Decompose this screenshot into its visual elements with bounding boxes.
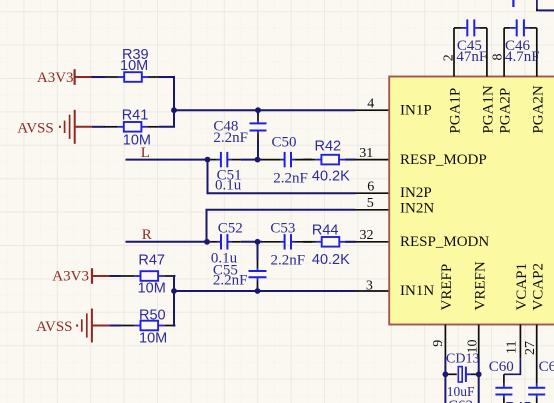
power port AVSS (top) [17, 110, 92, 144]
resistor R50 10M [121, 308, 175, 347]
svg-text:3: 3 [366, 278, 373, 293]
capacitor C46 4.7nF [504, 19, 539, 65]
svg-text:IN2P: IN2P [400, 185, 432, 201]
svg-text:4: 4 [367, 97, 374, 112]
svg-text:PGA2P: PGA2P [498, 88, 514, 134]
capacitor C60 [489, 359, 521, 403]
pin 11 VCAP1 [505, 263, 530, 359]
wire R44 to pin 32 [346, 241, 356, 243]
pin 8 PGA2P [491, 28, 514, 134]
pin name IN2P [400, 185, 432, 201]
wire AVSS to R50 [109, 325, 121, 327]
wire top-right corner (net from above) [537, 0, 554, 10]
capacitor C50 2.2nF [262, 135, 312, 187]
svg-text:2.2nF: 2.2nF [213, 273, 248, 289]
svg-text:IN1N: IN1N [400, 283, 434, 299]
svg-text:2.2nF: 2.2nF [213, 130, 248, 146]
svg-text:C52: C52 [218, 221, 243, 237]
wire R42 to pin 31 [345, 159, 355, 161]
svg-text:RESP_MODN: RESP_MODN [400, 234, 489, 250]
power port A3V3 (bottom) [52, 268, 109, 284]
svg-text:0.1u: 0.1u [215, 178, 242, 194]
svg-text:R47: R47 [138, 252, 165, 268]
wire C53 to R44 [304, 241, 312, 243]
svg-text:R42: R42 [315, 138, 342, 154]
wire A3V3 to R47 [110, 275, 122, 277]
svg-text:PGA1P: PGA1P [448, 88, 464, 134]
svg-text:R41: R41 [122, 107, 149, 123]
resistor R39 10M [105, 47, 159, 82]
wire IN2N to R junction [207, 210, 356, 242]
wire AVSS to R41 [92, 126, 105, 128]
pin 4 IN1P [356, 97, 390, 112]
capacitor CD13 10uF (polarized) [445, 367, 478, 382]
resistor R44 40.2K [303, 223, 357, 268]
resistor R42 40.2K [302, 138, 356, 184]
pin name RESP_MODN [400, 234, 489, 250]
capacitor C55 2.2nF [213, 242, 267, 291]
svg-text:IN2N: IN2N [400, 201, 434, 217]
svg-text:10uF: 10uF [447, 384, 475, 399]
node L input wire [126, 145, 208, 161]
junction IN1N / C55 [255, 288, 261, 294]
pin 7 PGA2N [530, 28, 546, 134]
svg-text:PGA1N: PGA1N [480, 85, 496, 134]
svg-text:VREFN: VREFN [472, 261, 488, 310]
junction VREFP / CD13 [443, 371, 449, 377]
power port A3V3 (top) [37, 69, 92, 86]
capacitor C45 47nF [454, 19, 487, 65]
svg-text:AVSS: AVSS [17, 121, 53, 137]
capacitor C53 2.2nF [262, 221, 312, 269]
svg-text:R: R [142, 227, 152, 243]
svg-text:40.2K: 40.2K [312, 252, 350, 268]
junction IN1P / C48 [255, 107, 261, 113]
pin name RESP_MODP [400, 152, 487, 168]
junction C55 / RESP_MODN [255, 239, 261, 245]
capacitor C52 0.1u [207, 221, 243, 267]
pin 5 IN2N [356, 196, 390, 211]
svg-text:2.2nF: 2.2nF [273, 170, 308, 186]
wire R47 to junction [174, 276, 175, 291]
svg-text:VREFP: VREFP [439, 264, 455, 311]
junction C48 / RESP_MODP [255, 157, 261, 163]
svg-text:5: 5 [367, 196, 374, 211]
pin 6 IN2P [356, 179, 390, 194]
svg-text:PGA2N: PGA2N [530, 85, 546, 134]
svg-text:40.2K: 40.2K [312, 168, 350, 184]
wire R41 to junction [159, 110, 174, 127]
svg-text:11: 11 [505, 341, 520, 354]
wire IN1P net [174, 109, 356, 111]
label C62 (cut off at bottom) [448, 398, 473, 403]
svg-text:A3V3: A3V3 [37, 70, 74, 86]
svg-text:4.7nF: 4.7nF [505, 49, 540, 65]
resistor R47 10M [121, 252, 175, 296]
power port AVSS (bottom) [36, 309, 109, 343]
pin 1 PGA1N [480, 28, 496, 134]
svg-text:C60: C60 [489, 359, 514, 375]
svg-text:2: 2 [441, 54, 456, 61]
pin 3 IN1N [356, 278, 390, 293]
wire stub top (cut off) [512, 0, 514, 7]
resistor R41 10M [105, 107, 159, 148]
svg-text:10M: 10M [120, 58, 148, 74]
label R45 (cut off at bottom) [505, 400, 532, 403]
svg-text:RESP_MODP: RESP_MODP [400, 152, 487, 168]
wire VREFP down [444, 374, 446, 403]
svg-text:6: 6 [367, 179, 374, 194]
pin 32 RESP_MODN [356, 228, 390, 243]
pin 2 PGA1P [441, 28, 463, 134]
junction IN1P left [171, 107, 177, 113]
svg-text:10: 10 [466, 340, 481, 354]
svg-text:C62: C62 [448, 398, 473, 403]
op-amp/afe IC U1 body [389, 77, 554, 325]
pin name IN1P [400, 102, 432, 118]
capacitor C51 0.1u [207, 152, 242, 194]
svg-text:9: 9 [431, 340, 446, 347]
svg-text:8: 8 [491, 54, 506, 61]
svg-text:47nF: 47nF [456, 49, 487, 65]
wire C51 to C50 [241, 159, 262, 161]
pin 9 VREFP [431, 264, 455, 374]
svg-text:C50: C50 [272, 135, 297, 151]
svg-text:AVSS: AVSS [36, 319, 72, 335]
wire C50 to R42 [304, 159, 312, 161]
capacitor C48 2.2nF [213, 110, 266, 159]
junction R / C52 / IN2N [204, 239, 210, 245]
svg-text:IN1P: IN1P [400, 102, 432, 118]
wire R39 to junction [159, 77, 174, 110]
svg-text:27: 27 [523, 341, 538, 355]
junction L / C51 / IN2P [205, 157, 211, 163]
junction VREFN / CD13 [476, 371, 482, 377]
wire A3V3 to R39 [92, 76, 106, 78]
pin 10 VREFN [466, 261, 489, 374]
svg-text:32: 32 [360, 228, 374, 243]
svg-text:VCAP2: VCAP2 [530, 263, 546, 311]
svg-text:10M: 10M [139, 331, 167, 347]
label CD13 10uF [446, 351, 479, 399]
svg-text:10M: 10M [138, 280, 166, 296]
svg-text:A3V3: A3V3 [52, 269, 89, 285]
svg-text:C61: C61 [539, 359, 554, 375]
svg-text:C53: C53 [270, 221, 295, 237]
node R input wire [126, 227, 208, 243]
svg-text:R44: R44 [312, 223, 339, 239]
pin name IN1N [400, 283, 434, 299]
junction IN1N left [171, 288, 177, 294]
pin name IN2N [400, 201, 434, 217]
wire IN1N net [174, 290, 356, 292]
pin 31 RESP_MODP [356, 146, 390, 161]
svg-text:2.2nF: 2.2nF [271, 253, 306, 269]
pin 27 VCAP2 [523, 263, 546, 384]
wire C52 to C53 [241, 241, 262, 243]
capacitor C61 [528, 359, 554, 403]
wire L to IN2P rail [208, 160, 356, 194]
svg-text:31: 31 [359, 146, 373, 161]
wire R50 to junction [174, 291, 175, 326]
wire VREFN down [478, 374, 480, 403]
svg-text:R50: R50 [139, 308, 166, 324]
svg-text:VCAP1: VCAP1 [514, 263, 530, 311]
